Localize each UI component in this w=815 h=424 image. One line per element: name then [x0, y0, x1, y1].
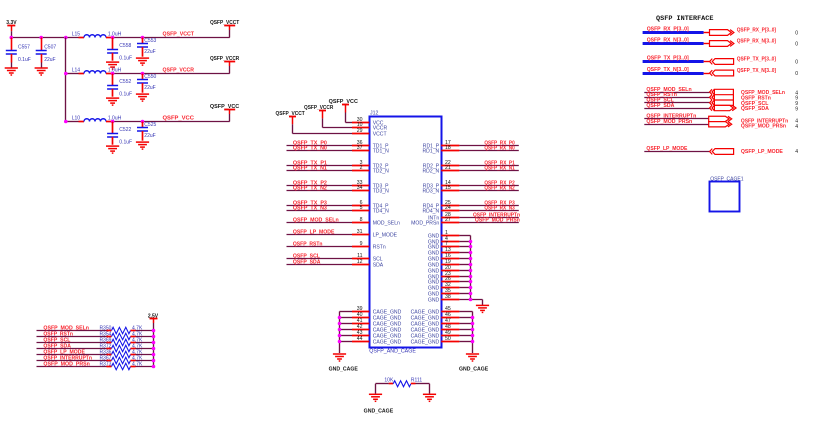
svg-text:QSFP_SDA: QSFP_SDA [293, 259, 321, 265]
wire QSFP_VCCR rail [113, 73, 230, 75]
svg-text:34: 34 [357, 185, 363, 191]
wire QSFP_MOD_PRSn [459, 222, 518, 224]
svg-text:C557: C557 [18, 45, 30, 51]
svg-text:QSFP_VCCT: QSFP_VCCT [163, 32, 195, 38]
svg-text:GND_CAGE: GND_CAGE [459, 366, 489, 372]
svg-text:MOD_PRSn: MOD_PRSn [411, 220, 439, 226]
svg-text:QSFP_VCCR: QSFP_VCCR [304, 105, 334, 111]
ground GND [476, 305, 489, 312]
node QSFP_MOD_SELn pullup junction [152, 329, 156, 333]
svg-text:QSFP INTERFACE: QSFP INTERFACE [656, 15, 714, 22]
J12 pin 28 INTn [441, 217, 459, 219]
ground of C525 [136, 142, 149, 149]
port QSFP_SDA chevrons [710, 105, 712, 110]
svg-text:0: 0 [795, 59, 798, 65]
node QSFP_INTERRUPTn pullup junction [152, 359, 156, 363]
wire QSFP_VCCT rail [113, 37, 230, 39]
capacitor C550 [142, 74, 144, 80]
J12 pin 6 TD4_P [352, 205, 369, 207]
ground of C558 [106, 62, 119, 69]
svg-text:QSFP_MOD_PRSn: QSFP_MOD_PRSn [475, 217, 520, 223]
svg-text:2: 2 [360, 165, 363, 171]
wire QSFP_RSTn interface [644, 97, 709, 99]
wire QSFP_TX_P3 [287, 205, 353, 207]
svg-text:1.0uH: 1.0uH [108, 68, 122, 74]
port QSFP_INTERRUPTn [709, 116, 729, 121]
svg-text:4: 4 [795, 124, 798, 130]
svg-text:TD1_N: TD1_N [373, 148, 389, 154]
port QSFP_RX_P[3..0] [704, 32, 710, 34]
resistor R372 4.7K [107, 348, 112, 350]
svg-text:QSFP_VCC: QSFP_VCC [163, 116, 195, 122]
svg-text:QSFP_LP_MODE: QSFP_LP_MODE [741, 149, 784, 155]
J12 pin 46 CAGE_GND [441, 317, 459, 319]
svg-text:0: 0 [795, 41, 798, 47]
node QSFP_MOD_PRSn pullup junction [152, 365, 156, 369]
J12 pin 3 TD2_P [352, 165, 369, 167]
resistor R350 4.7K [107, 330, 112, 332]
svg-text:LP_MODE: LP_MODE [373, 232, 398, 238]
wire QSFP_RSTn [287, 246, 353, 248]
svg-text:L10: L10 [72, 116, 81, 122]
inductor L14 [66, 73, 79, 75]
svg-text:4.7K: 4.7K [132, 362, 143, 368]
ground of C507 [35, 68, 48, 75]
wire QSFP_SDA pullup [37, 348, 107, 350]
wire QSFP_RX_P2 [459, 185, 518, 187]
node QSFP_RSTn pullup junction [152, 335, 156, 339]
svg-text:QSFP_TX_P[3..0]: QSFP_TX_P[3..0] [737, 56, 777, 62]
svg-text:0: 0 [795, 30, 798, 36]
svg-text:QSFP_SDA: QSFP_SDA [646, 103, 674, 109]
svg-text:8: 8 [360, 217, 363, 223]
svg-text:29: 29 [357, 128, 363, 134]
svg-text:QSFP_RX_N2: QSFP_RX_N2 [484, 185, 514, 191]
wire QSFP_RX_N2 [459, 190, 518, 192]
wire GND bus [459, 235, 470, 237]
node dots on QSFP_VCCR [111, 72, 115, 76]
svg-text:L15: L15 [72, 32, 81, 38]
svg-text:QSFP_AND_CAGE: QSFP_AND_CAGE [369, 348, 416, 354]
svg-text:QSFP_RX_N0: QSFP_RX_N0 [484, 145, 514, 151]
J12 pin 38 GND [441, 299, 459, 301]
svg-text:0.1uF: 0.1uF [18, 57, 31, 63]
svg-text:C525: C525 [144, 122, 156, 128]
wire QSFP_INTERRUPTn [459, 217, 518, 219]
svg-text:MOD_SELn: MOD_SELn [373, 220, 400, 226]
svg-text:RD1_N: RD1_N [422, 148, 439, 154]
J12 pin 12 SDA [352, 264, 369, 266]
node QSFP_SCL pullup junction [152, 341, 156, 345]
bus QSFP_RX_N[3..0] [643, 42, 704, 45]
svg-text:4: 4 [795, 149, 798, 155]
J12 pin 10 VCCR [352, 127, 369, 129]
wire QSFP_LP_MODE [287, 234, 353, 236]
svg-text:38: 38 [445, 294, 451, 300]
wire QSFP_INTERRUPTn interface [644, 118, 708, 120]
J12 pin 8 MOD_SELn [352, 222, 369, 224]
wire 2.5V pullup bus [153, 323, 155, 367]
node GND junction dots [469, 240, 473, 244]
wire QSFP_TX_P0 [287, 145, 353, 147]
svg-text:1.0uH: 1.0uH [108, 116, 122, 122]
inductor L10 [66, 121, 79, 123]
svg-text:QSFP_MOD_PRSn: QSFP_MOD_PRSn [43, 361, 90, 367]
port group MOD_SELn/RSTn/SCL/SDA body [714, 89, 733, 105]
port QSFP_TX_N[3..0] [704, 73, 710, 75]
J12 pin 35 GND [441, 293, 459, 295]
J12 pin 40 CAGE_GND [352, 317, 369, 319]
svg-text:QSFP_VCCR: QSFP_VCCR [163, 68, 195, 74]
svg-text:QSFP_LP_MODE: QSFP_LP_MODE [293, 229, 335, 235]
svg-text:QSFP_MOD_PRSn: QSFP_MOD_PRSn [741, 124, 786, 130]
wire R111 left [376, 383, 389, 385]
svg-text:SDA: SDA [373, 262, 384, 268]
J12 pin 44 CAGE_GND [352, 341, 369, 343]
node QSFP_SDA pullup junction [152, 347, 156, 351]
resistor R373 4.7K [107, 366, 112, 368]
J12 pin 24 RD4_N [441, 210, 459, 212]
J12 pin 7 GND [441, 246, 459, 248]
svg-text:QSFP_TX_P[3..0]: QSFP_TX_P[3..0] [647, 55, 689, 61]
port QSFP_MOD_SELn chevrons [710, 89, 712, 94]
wire QSFP_MOD_PRSn interface [644, 124, 708, 126]
wire QSFP_VCC to J12 [345, 113, 347, 123]
svg-text:44: 44 [357, 336, 363, 342]
ground GND_CAGE at R111 [369, 394, 382, 401]
svg-text:22uF: 22uF [44, 57, 55, 63]
ground GND_CAGE left [333, 354, 346, 361]
node QSFP_LP_MODE pullup junction [152, 353, 156, 357]
node dots on QSFP_VCCT [111, 36, 115, 40]
wire QSFP_RX_P1 [459, 165, 518, 167]
wire QSFP_RX_P3 [459, 205, 518, 207]
svg-text:9: 9 [795, 106, 798, 112]
svg-text:12: 12 [357, 259, 363, 265]
J12 pin 42 CAGE_GND [352, 329, 369, 331]
svg-text:15: 15 [445, 185, 451, 191]
wire QSFP_RSTn pullup [37, 336, 107, 338]
wire QSFP_RX_N1 [459, 170, 518, 172]
J12 pin 5 TD4_N [352, 210, 369, 212]
svg-text:27: 27 [445, 217, 451, 223]
port QSFP_MOD_PRSn [709, 122, 729, 127]
svg-text:24: 24 [445, 205, 451, 211]
resistor R336 4.7K [107, 354, 112, 356]
svg-text:QSFP_TX_N0: QSFP_TX_N0 [293, 145, 327, 151]
J12 pin 29 VCCT [352, 133, 369, 135]
svg-text:QSFP_RSTn: QSFP_RSTn [293, 241, 323, 247]
port QSFP_RSTn chevrons [710, 95, 712, 100]
wire 3.3V rail [11, 37, 78, 39]
bus QSFP_TX_N[3..0] [643, 72, 704, 75]
bus QSFP_RX_P[3..0] [643, 31, 704, 34]
J12 pin 22 RD2_P [441, 165, 459, 167]
J12 pin 48 CAGE_GND [441, 329, 459, 331]
svg-text:QSFP_TX_N2: QSFP_TX_N2 [293, 185, 327, 191]
svg-text:C522: C522 [119, 127, 131, 133]
J12 pin 25 RD4_P [441, 205, 459, 207]
svg-text:QSFP_RX_N[3..0]: QSFP_RX_N[3..0] [737, 38, 777, 44]
svg-text:QSFP_TX_N3: QSFP_TX_N3 [293, 205, 327, 211]
node dots on QSFP_VCC [111, 120, 115, 124]
wire QSFP_TX_P2 [287, 185, 353, 187]
J12 pin 50 CAGE_GND [441, 341, 459, 343]
J12 pin 33 TD3_P [352, 185, 369, 187]
svg-text:QSFP_RX_P[3..0]: QSFP_RX_P[3..0] [647, 26, 689, 32]
svg-text:C550: C550 [144, 74, 156, 80]
wire QSFP_RX_P0 [459, 145, 518, 147]
J12 pin 20 GND [441, 270, 459, 272]
capacitor C558 [112, 38, 114, 50]
svg-text:22uF: 22uF [144, 49, 155, 55]
J12 pin 30 VCC [352, 122, 369, 124]
J12 pin 41 CAGE_GND [352, 323, 369, 325]
connector J12 body [370, 117, 442, 348]
J12 pin 1 GND [441, 235, 459, 237]
port QSFP_LP_MODE [710, 149, 713, 155]
wire QSFP_TX_N3 [287, 210, 353, 212]
svg-text:QSFP_TX_N[3..0]: QSFP_TX_N[3..0] [647, 67, 689, 73]
wire QSFP_VCC rail [113, 121, 230, 123]
resistor R367 4.7K [107, 360, 112, 362]
wire QSFP_TX_P1 [287, 165, 353, 167]
svg-text:0.1uF: 0.1uF [119, 91, 132, 97]
resistor R369 4.7K [107, 342, 112, 344]
J12 pin 19 GND [441, 264, 459, 266]
wire QSFP_LP_MODE interface [644, 151, 710, 153]
svg-text:TD3_N: TD3_N [373, 188, 389, 194]
wire QSFP_RX_N3 [459, 210, 518, 212]
J12 pin 9 RSTn [352, 246, 369, 248]
wire QSFP_TX_N1 [287, 170, 353, 172]
svg-text:QSFP_TX_N[3..0]: QSFP_TX_N[3..0] [737, 68, 777, 74]
J12 pin 23 GND [441, 276, 459, 278]
bus QSFP_TX_P[3..0] [643, 60, 704, 63]
J12 pin 17 RD1_P [441, 145, 459, 147]
wire QSFP_SCL [287, 258, 353, 260]
svg-text:RD2_N: RD2_N [422, 168, 439, 174]
svg-text:0.1uF: 0.1uF [119, 55, 132, 61]
J12 pin 27 MOD_PRSn [441, 222, 459, 224]
svg-text:CAGE_GND: CAGE_GND [411, 339, 440, 345]
J12 pin 14 RD3_P [441, 185, 459, 187]
svg-text:QSFP_RX_N1: QSFP_RX_N1 [484, 165, 514, 171]
wire QSFP_TX_N2 [287, 190, 353, 192]
svg-text:QSFP_SDA: QSFP_SDA [741, 106, 769, 112]
wire QSFP_MOD_SELn pullup [37, 330, 107, 332]
wire QSFP_SCL pullup [37, 342, 107, 344]
svg-text:C507: C507 [44, 45, 56, 51]
svg-text:31: 31 [357, 229, 363, 235]
svg-text:0.1uF: 0.1uF [119, 139, 132, 145]
capacitor C525 [142, 122, 144, 128]
svg-text:QSFP_RX_P[3..0]: QSFP_RX_P[3..0] [737, 27, 777, 33]
wire CAGE_GND right bus [459, 311, 472, 313]
capacitor C507 [41, 38, 43, 51]
svg-text:QSFP_MOD_SELn: QSFP_MOD_SELn [293, 217, 339, 223]
svg-text:RD4_N: RD4_N [422, 208, 439, 214]
wire QSFP_VCCR to J12 [322, 118, 324, 127]
ground of C552 [106, 98, 119, 105]
svg-text:TD4_N: TD4_N [373, 208, 389, 214]
J12 pin 11 SCL [352, 258, 369, 260]
capacitor C553 [142, 38, 144, 44]
wire feed vertical [65, 38, 67, 122]
ground of C522 [106, 146, 119, 153]
svg-text:CAGE_GND: CAGE_GND [373, 339, 402, 345]
port QSFP_SCL chevrons [710, 100, 712, 105]
J12 pin 16 GND [441, 258, 459, 260]
svg-text:21: 21 [445, 165, 451, 171]
svg-text:GND_CAGE: GND_CAGE [364, 409, 394, 415]
node rail junction dots [10, 36, 14, 40]
resistor R354 4.7K [107, 336, 112, 338]
J12 pin 32 GND [441, 287, 459, 289]
ground GND_CAGE right [466, 354, 479, 361]
svg-text:C553: C553 [144, 38, 156, 44]
port QSFP_RX_N[3..0] [704, 43, 710, 45]
J12 pin 34 TD3_N [352, 190, 369, 192]
svg-text:22uF: 22uF [144, 133, 155, 139]
capacitor C522 [112, 122, 114, 134]
J12 pin 31 LP_MODE [352, 234, 369, 236]
J12 pin 37 TD1_N [352, 150, 369, 152]
ground of C553 [136, 58, 149, 65]
svg-text:50: 50 [445, 336, 451, 342]
svg-text:37: 37 [357, 145, 363, 151]
svg-text:RSTn: RSTn [373, 244, 386, 250]
capacitor C557 [11, 38, 13, 51]
wire QSFP_SDA interface [644, 108, 709, 110]
J12 pin 4 GND [441, 241, 459, 243]
svg-text:RD3_N: RD3_N [422, 188, 439, 194]
svg-text:0: 0 [795, 71, 798, 77]
J12 pin 21 RD2_N [441, 170, 459, 172]
svg-text:GND: GND [428, 297, 440, 303]
svg-text:VCCT: VCCT [373, 131, 387, 137]
wire QSFP_TX_N0 [287, 150, 353, 152]
svg-text:C558: C558 [119, 43, 131, 49]
port QSFP_TX_P[3..0] [704, 61, 710, 63]
J12 pin 2 TD2_N [352, 170, 369, 172]
wire QSFP_MOD_PRSn pullup [37, 366, 107, 368]
svg-text:R373: R373 [99, 362, 111, 368]
wire R111 right [416, 383, 430, 385]
J12 pin 43 CAGE_GND [352, 335, 369, 337]
wire QSFP_MOD_SELn interface [644, 92, 709, 94]
J12 pin 36 TD1_P [352, 145, 369, 147]
svg-text:C552: C552 [119, 79, 131, 85]
svg-text:GND_CAGE: GND_CAGE [329, 366, 359, 372]
svg-text:18: 18 [445, 145, 451, 151]
J12 pin 45 CAGE_GND [441, 311, 459, 313]
wire QSFP_MOD_SELn [287, 222, 353, 224]
wire QSFP_LP_MODE pullup [37, 354, 107, 356]
svg-text:1.0uH: 1.0uH [108, 32, 122, 38]
wire CAGE_GND left bus [340, 311, 353, 313]
J12 pin 47 CAGE_GND [441, 323, 459, 325]
wire QSFP_SDA [287, 264, 353, 266]
svg-text:5: 5 [360, 205, 363, 211]
wire QSFP_RX_N0 [459, 150, 518, 152]
J12 pin 26 GND [441, 281, 459, 283]
svg-text:QSFP_LP_MODE: QSFP_LP_MODE [646, 146, 688, 152]
svg-text:L14: L14 [72, 68, 81, 74]
svg-text:QSFP_RX_N[3..0]: QSFP_RX_N[3..0] [647, 37, 689, 43]
ground at R111 right [423, 394, 436, 401]
svg-text:TD2_N: TD2_N [373, 168, 389, 174]
J12 pin 15 RD3_N [441, 190, 459, 192]
node CAGE_GND left dots [338, 316, 342, 320]
svg-text:J12: J12 [370, 111, 378, 117]
ground of C550 [136, 94, 149, 101]
J12 pin 18 RD1_N [441, 150, 459, 152]
J12 pin 49 CAGE_GND [441, 335, 459, 337]
node CAGE_GND right dots [471, 316, 475, 320]
svg-text:QSFP_RX_N3: QSFP_RX_N3 [484, 205, 514, 211]
wire QSFP_VCCT to J12 [292, 124, 294, 133]
wire QSFP_INTERRUPTn pullup [37, 360, 107, 362]
ground of C557 [5, 68, 18, 75]
svg-text:QSFP_TX_N1: QSFP_TX_N1 [293, 165, 327, 171]
svg-text:QSFP_MOD_PRSn: QSFP_MOD_PRSn [646, 119, 692, 125]
wire QSFP_SCL interface [644, 102, 709, 104]
J12 pin 39 CAGE_GND [352, 311, 369, 313]
J12 pin 13 GND [441, 252, 459, 254]
capacitor C552 [112, 74, 114, 86]
svg-text:22uF: 22uF [144, 85, 155, 91]
svg-text:9: 9 [360, 241, 363, 247]
